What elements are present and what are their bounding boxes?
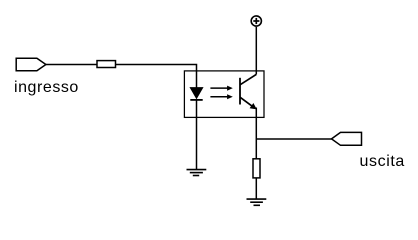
wire to output [256, 138, 331, 140]
resistor R2 [253, 159, 260, 178]
wire emitter down [255, 108, 257, 159]
ground left [187, 170, 207, 176]
light arrows [210, 86, 232, 100]
port uscita [332, 132, 362, 145]
wire cathode down [196, 100, 198, 170]
ground right [247, 199, 267, 205]
transistor Q1 [240, 74, 257, 109]
wire collector up [255, 27, 257, 75]
wire resistor to ground [255, 178, 257, 199]
wire [116, 65, 197, 88]
port ingresso [16, 58, 46, 71]
label ingresso [14, 79, 79, 97]
label uscita [360, 153, 405, 171]
Vcc supply [251, 16, 261, 26]
LED D1 [190, 88, 202, 100]
wire [46, 64, 97, 66]
resistor R1 [97, 61, 116, 68]
optocoupler U1 [184, 71, 264, 118]
